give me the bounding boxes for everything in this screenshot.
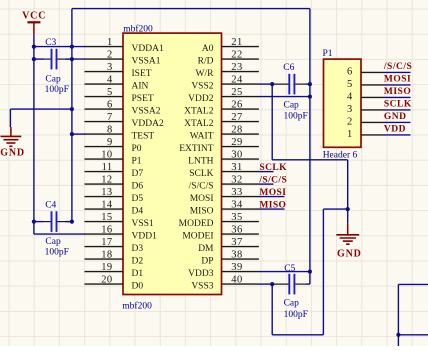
svg-text:1: 1 [107,37,113,48]
svg-text:Cap: Cap [284,298,300,308]
svg-text:2: 2 [107,50,113,61]
junction dots C5 [270,270,312,287]
svg-text:VSSA2: VSSA2 [132,106,161,116]
svg-text:PSET: PSET [132,94,154,104]
svg-text:15: 15 [101,212,112,223]
IC U1 mbf200 body [123,33,222,294]
mbf200 left pin numbers 1-20 [101,37,113,286]
svg-text:P1: P1 [132,156,142,166]
svg-text:27: 27 [231,112,242,123]
svg-text:21: 21 [231,37,242,48]
label P1 (designator) [323,49,333,59]
svg-text:VSSA1: VSSA1 [132,56,161,66]
wire bottom-right partial rectangle [398,284,428,346]
label C4 [45,201,56,211]
svg-text:ISET: ISET [132,69,152,79]
svg-text:38: 38 [231,250,242,261]
P1 pin lines 6..1 [361,72,384,134]
svg-text:MOSI: MOSI [259,188,286,198]
svg-text:5: 5 [347,79,352,90]
net label MISO (P1 pin 4) [384,87,411,97]
svg-text:4: 4 [107,75,113,86]
wire row40 stub to C5 [259,283,273,285]
svg-text:12: 12 [101,175,112,186]
svg-text:D1: D1 [132,269,144,279]
net label /S/C/S (P1 pin 6) [383,62,412,72]
label C6 value 100pF [284,111,308,121]
svg-text:100pF: 100pF [284,310,308,320]
label C6 [283,63,294,73]
svg-text:11: 11 [102,162,113,173]
svg-text:mbf200: mbf200 [122,300,152,311]
wire top horizontal [72,8,310,10]
wire GND elbow to bottom path [272,209,348,335]
svg-text:/S/C/S: /S/C/S [189,181,214,191]
mbf200 right pins 21-40 (pin lines) [222,47,259,285]
svg-text:23: 23 [231,62,242,73]
wire vertical x=309.9 C6 to C5 [309,84,311,284]
wire stub pin 31 [259,171,274,173]
label C3 [45,38,56,48]
svg-text:R/D: R/D [198,56,214,66]
svg-text:MISO: MISO [190,206,214,216]
svg-text:VDD2: VDD2 [188,94,214,104]
svg-text:D3: D3 [132,244,144,254]
wire stub pin 32 [259,183,274,185]
svg-text:mbf200: mbf200 [123,24,153,35]
wire P1 pin 4 stub [384,96,411,98]
wire row25 (VDD2) to C6 right elbow [259,96,310,98]
svg-text:18: 18 [101,250,112,261]
svg-text:5: 5 [107,87,113,98]
svg-text:VDDA2: VDDA2 [132,119,164,129]
net label VDD (P1 pin 1) [384,125,406,135]
label C4 value 100pF [45,248,69,258]
svg-text:3: 3 [107,62,113,73]
svg-text:17: 17 [101,237,112,248]
net label SCLK (P1 pin 3) [384,100,412,110]
svg-text:8: 8 [107,125,113,136]
svg-text:C3: C3 [45,38,56,48]
wire VCC stem down to row1 [33,34,35,46]
svg-text:Cap: Cap [45,237,61,247]
svg-text:XTAL2: XTAL2 [184,106,214,116]
svg-text:4: 4 [347,92,353,103]
svg-text:MOSI: MOSI [190,194,214,204]
svg-text:20: 20 [101,275,112,286]
wire P1 pin 3 stub [384,109,411,111]
connector P1 Header 6 body [324,59,362,147]
svg-text:D2: D2 [132,256,144,266]
svg-text:9: 9 [107,137,113,148]
svg-text:VCC: VCC [22,11,46,22]
svg-text:VSS1: VSS1 [132,219,154,229]
svg-text:100pF: 100pF [284,111,308,121]
label C3 value Cap [45,74,61,84]
svg-text:28: 28 [231,125,242,136]
svg-text:WAIT: WAIT [190,131,214,141]
ground symbol GND (right) [336,223,361,259]
capacitor C6 [272,74,310,95]
svg-text:/S/C/S: /S/C/S [383,62,412,72]
wire P1 pin 5 stub [384,84,411,86]
wire vertical VCC net x=33.9 rows1-2 down to C4 [33,47,35,222]
svg-text:VDD3: VDD3 [188,269,214,279]
wire top right drop to C6 [309,9,311,85]
svg-text:40: 40 [231,275,242,286]
wire GND tee row6 [10,109,72,127]
svg-text:14: 14 [101,200,113,211]
svg-text:31: 31 [231,162,242,173]
svg-text:Cap: Cap [284,100,300,110]
svg-text:36: 36 [231,225,242,236]
svg-text:13: 13 [101,187,112,198]
svg-text:MODEI: MODEI [182,231,213,241]
svg-text:22: 22 [231,50,242,61]
svg-text:3: 3 [347,104,352,115]
junction dot GND node [346,207,350,211]
label C5 [284,264,295,274]
junction dots (VCC/GND verticals) [32,45,74,224]
wire vertical x=272.2 C6 left down to GND elbow [272,84,348,223]
svg-text:10: 10 [101,150,112,161]
junction dot bottom-right [396,333,400,337]
svg-text:GND: GND [0,148,25,159]
svg-text:MODED: MODED [179,219,214,229]
svg-text:SCLK: SCLK [189,169,213,179]
svg-text:24: 24 [231,75,243,86]
svg-text:GND: GND [384,112,407,122]
wire stub pin 33 [259,196,285,198]
svg-text:100pF: 100pF [45,248,69,258]
mbf200 right pin numbers 21-40 [231,37,243,286]
power symbol VCC [22,11,46,35]
svg-text:19: 19 [101,262,112,273]
svg-text:32: 32 [231,175,242,186]
svg-text:C4: C4 [45,201,56,211]
svg-text:100pF: 100pF [45,85,69,95]
net label /S/C/S (pin 32) [258,175,287,185]
svg-text:AIN: AIN [132,81,149,91]
svg-text:16: 16 [101,225,112,236]
svg-text:XTAL2: XTAL2 [184,119,214,129]
svg-text:GND: GND [337,249,362,260]
net label MOSI (pin 33) [259,188,286,198]
label C4 value Cap [45,237,61,247]
svg-text:39: 39 [231,262,242,273]
svg-text:P0: P0 [132,144,142,154]
svg-text:D5: D5 [132,194,144,204]
label mbf200 (designator, top) [123,24,153,35]
wire row8 stub [72,133,86,135]
svg-text:Cap: Cap [45,74,61,84]
svg-text:D4: D4 [132,206,144,216]
wire P1 pin 2 stub [384,121,411,123]
svg-text:DM: DM [198,244,214,254]
mbf200 right pin names [179,44,214,291]
svg-text:A0: A0 [202,44,214,54]
svg-text:VSS3: VSS3 [191,281,213,291]
net label SCLK (pin 31) [259,163,287,173]
svg-text:34: 34 [231,200,243,211]
wire P1 pin 6 stub [384,71,411,73]
svg-text:Header 6: Header 6 [323,150,358,160]
svg-text:33: 33 [231,187,242,198]
ground symbol GND (left) [0,127,25,159]
svg-text:VDD: VDD [384,125,406,135]
junction dots C6 [270,82,312,99]
svg-text:LNTH: LNTH [188,156,213,166]
wire row39 (VDD3) to x=309.9 [259,271,310,273]
svg-text:SCLK: SCLK [384,100,412,110]
mbf200 left pin names [132,44,164,291]
net label MOSI (P1 pin 5) [384,75,411,85]
net label GND (P1 pin 2) [384,112,407,122]
label Header 6 (value) [323,150,358,160]
svg-text:TEST: TEST [132,131,155,141]
svg-text:MOSI: MOSI [384,75,411,85]
svg-text:26: 26 [231,100,242,111]
svg-text:6: 6 [107,100,113,111]
svg-text:30: 30 [231,150,242,161]
net label MISO (pin 34) [259,200,286,210]
label C5 value 100pF [284,310,308,320]
label mbf200 (part name, bottom) [122,300,152,311]
svg-text:7: 7 [107,112,113,123]
svg-text:37: 37 [231,237,242,248]
svg-text:6: 6 [347,67,352,78]
wire VCC elbow down to pin16 row [34,222,86,235]
svg-text:29: 29 [231,137,242,148]
capacitor C5 [272,274,310,295]
label C3 value 100pF [45,85,69,95]
svg-text:D6: D6 [132,181,144,191]
svg-text:2: 2 [347,117,352,128]
P1 pin numbers 6..1 [347,67,353,141]
svg-text:MISO: MISO [259,200,286,210]
svg-text:35: 35 [231,212,242,223]
svg-text:C6: C6 [283,63,294,73]
svg-text:W/R: W/R [196,69,215,79]
capacitor C3 [34,49,86,70]
wire vertical x=71.9 (top wire to C4 right) [71,9,73,222]
svg-text:VSS2: VSS2 [191,81,213,91]
wire row24 stub to C6 [259,83,273,85]
capacitor C4 [34,211,72,232]
wire P1 pin 1 stub [384,134,411,136]
mbf200 left pins 1-20 (pin lines) [85,47,124,285]
wire stub pin 34 [259,208,285,210]
svg-text:VDDA1: VDDA1 [132,44,164,54]
svg-text:D0: D0 [132,281,144,291]
svg-text:EXTINT: EXTINT [179,144,213,154]
svg-text:MISO: MISO [384,87,411,97]
svg-text:D7: D7 [132,169,144,179]
svg-text:/S/C/S: /S/C/S [258,175,287,185]
svg-text:25: 25 [231,87,242,98]
svg-text:P1: P1 [323,49,333,59]
svg-text:SCLK: SCLK [259,163,287,173]
label C6 value Cap [284,100,300,110]
label C5 value Cap [284,298,300,308]
svg-text:1: 1 [347,129,352,140]
svg-text:VDD1: VDD1 [132,231,158,241]
svg-text:DP: DP [201,256,213,266]
wire row1 (VDDA1) [34,46,86,48]
